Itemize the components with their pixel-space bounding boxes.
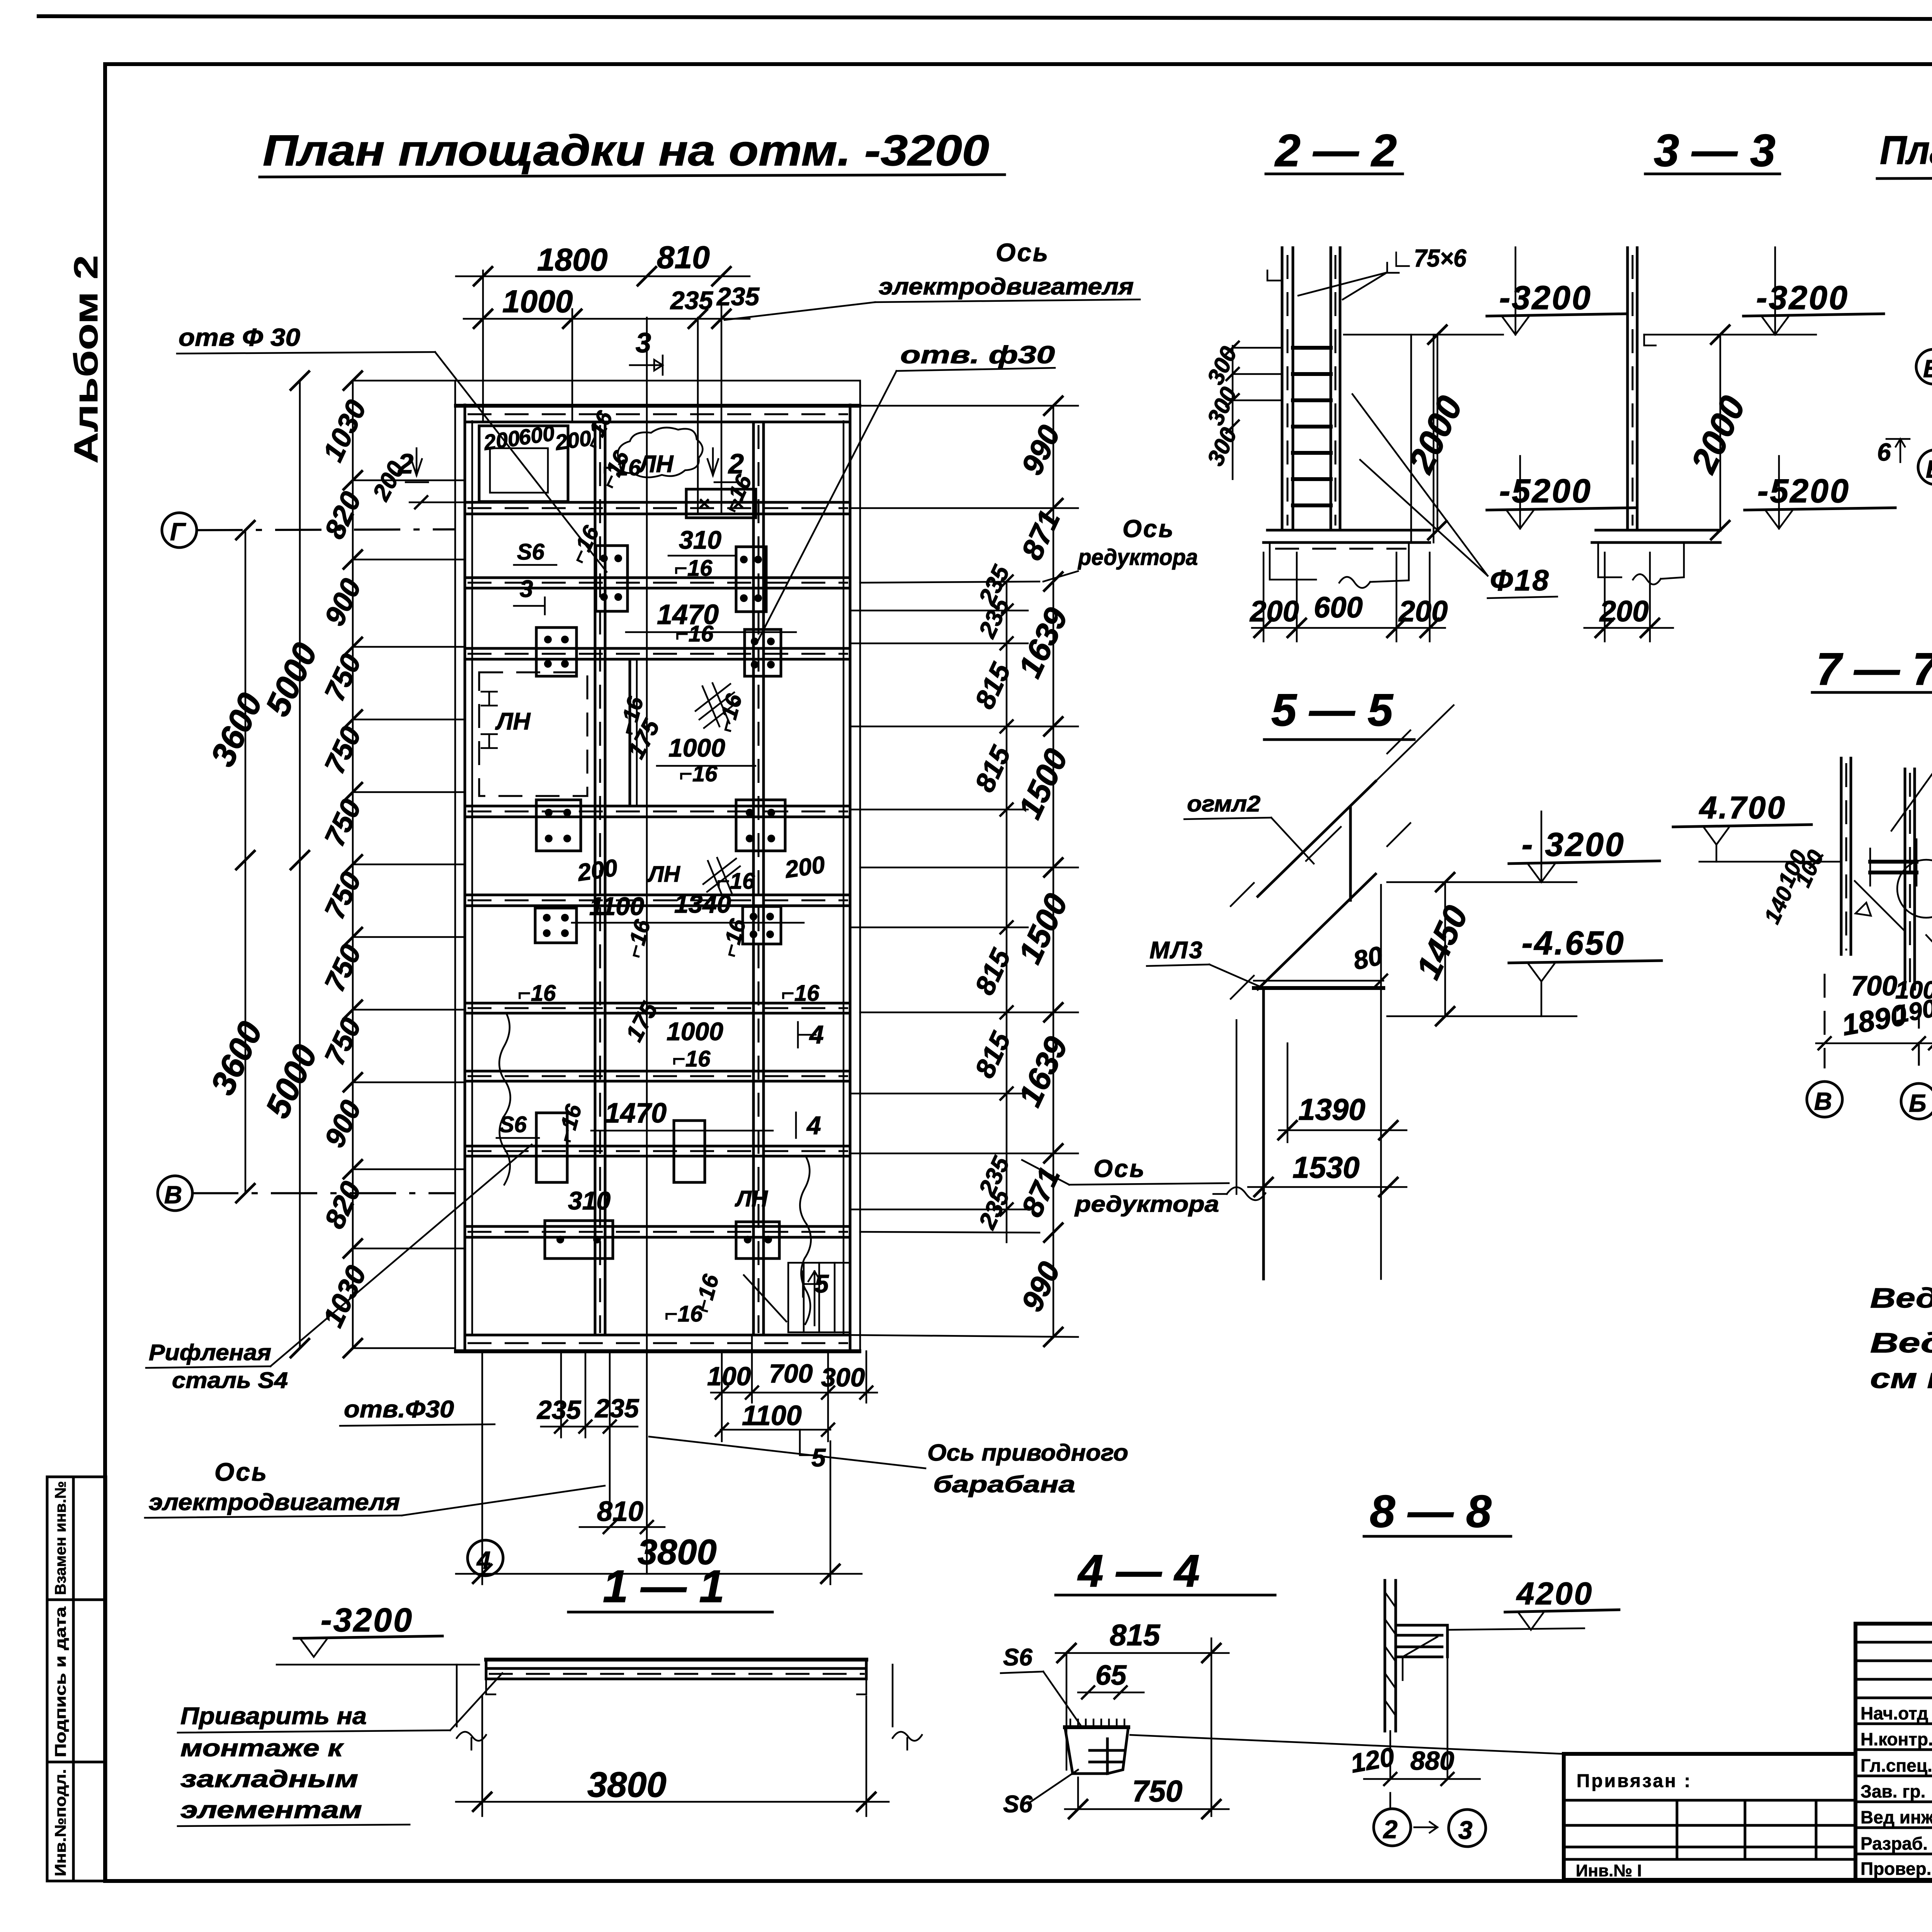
top dim line 1000-235-235 xyxy=(464,318,750,320)
svg-text:отв.Ф30: отв.Ф30 xyxy=(344,1396,454,1423)
svg-text:Провер.: Провер. xyxy=(1861,1859,1931,1879)
level line -3200 xyxy=(1344,334,1503,336)
plan left wall xyxy=(464,405,466,1351)
axis extension 235 right xyxy=(721,305,723,514)
rail post xyxy=(1349,807,1352,900)
extension verticals below plan xyxy=(482,1335,866,1584)
svg-text:300: 300 xyxy=(821,1363,865,1392)
svg-text:Ось: Ось xyxy=(1122,515,1175,543)
svg-text:S6: S6 xyxy=(517,539,545,565)
svg-text:закладным: закладным xyxy=(180,1766,358,1793)
svg-text:1000: 1000 xyxy=(668,733,725,762)
left dim chain 5000 xyxy=(299,381,301,1348)
svg-text:3: 3 xyxy=(520,576,533,602)
squiggle wall bottom-left room xyxy=(499,1013,510,1185)
column plate P9 tall xyxy=(536,1113,567,1182)
title block outer border xyxy=(1855,1624,1932,1880)
svg-text:-3200: -3200 xyxy=(1756,279,1849,316)
top edge beam xyxy=(456,404,859,408)
svg-text:⌐16: ⌐16 xyxy=(781,981,820,1006)
svg-text:1340: 1340 xyxy=(674,889,731,918)
base line xyxy=(1596,529,1720,532)
hatch mark 2 xyxy=(703,858,740,898)
svg-text:∟75×6: ∟75×6 xyxy=(1391,244,1466,272)
svg-text:План площадки на отм. -3200: План площадки на отм. -3200 xyxy=(263,126,989,175)
dim 1100 below xyxy=(721,1429,830,1431)
brace diagonal xyxy=(1855,881,1904,930)
beam row 8 xyxy=(465,1070,850,1073)
svg-text:Приварить на: Приварить на xyxy=(180,1703,367,1730)
svg-text:ЛН: ЛН xyxy=(638,451,674,478)
grid circles В Б xyxy=(1824,974,1826,1068)
svg-text:3800: 3800 xyxy=(638,1532,717,1572)
four thin top rows xyxy=(1855,1641,1932,1644)
column base plate P6 xyxy=(736,800,785,851)
svg-text:1100: 1100 xyxy=(589,892,644,920)
break squiggle xyxy=(1213,1187,1265,1201)
grid circle 4 xyxy=(468,1540,503,1576)
svg-text:МЛ3: МЛ3 xyxy=(1150,937,1204,964)
svg-text:⌐16: ⌐16 xyxy=(518,981,556,1006)
svg-text:810: 810 xyxy=(657,240,710,275)
svg-text:Инв.№ I: Инв.№ I xyxy=(1576,1861,1642,1880)
svg-text:Ведомость элементов см на: Ведомость элементов см на листе 23. xyxy=(1870,1283,1932,1314)
svg-text:огмл2: огмл2 xyxy=(1187,791,1260,816)
small room top-left xyxy=(479,426,568,502)
ladder rail right xyxy=(1330,248,1332,530)
splice plate xyxy=(1870,862,1917,872)
svg-text:200: 200 xyxy=(553,425,593,455)
svg-text:барабана: барабана xyxy=(933,1471,1075,1497)
svg-text:235: 235 xyxy=(594,1394,639,1423)
grid circle Б xyxy=(1918,450,1932,485)
svg-text:2: 2 xyxy=(1383,1815,1398,1844)
svg-text:Рифленая: Рифленая xyxy=(149,1340,271,1365)
svg-text:Альбом 2: Альбом 2 xyxy=(68,255,105,464)
svg-text:4: 4 xyxy=(476,1546,491,1574)
beam body xyxy=(486,1658,866,1662)
detail circle xyxy=(1897,860,1932,918)
svg-text:Ведомость элементов по сери: Ведомость элементов по серии 1.450.3-6 xyxy=(1870,1328,1932,1359)
svg-text:-5200: -5200 xyxy=(1757,473,1850,510)
foundation break xyxy=(1598,543,1684,585)
svg-text:235: 235 xyxy=(670,286,713,315)
dim 100 700 300 xyxy=(711,1392,877,1394)
svg-text:1390: 1390 xyxy=(1298,1092,1366,1126)
svg-text:7 — 7: 7 — 7 xyxy=(1816,644,1932,695)
svg-text:-4.650: -4.650 xyxy=(1522,925,1625,962)
svg-text:700: 700 xyxy=(769,1359,813,1388)
svg-text:-5200: -5200 xyxy=(1499,473,1592,510)
beam row 9 xyxy=(465,1145,850,1148)
svg-text:ЛН: ЛН xyxy=(495,708,531,735)
column verticals below platform xyxy=(1262,988,1265,1279)
svg-text:750: 750 xyxy=(1132,1774,1182,1808)
svg-text:1000: 1000 xyxy=(667,1017,723,1046)
axis В dash-dot xyxy=(192,1192,455,1194)
svg-text:Г: Г xyxy=(170,518,186,546)
small table grid xyxy=(1564,1754,1855,1880)
svg-text:электродвигателя: электродвигателя xyxy=(149,1489,400,1515)
svg-text:880: 880 xyxy=(1410,1746,1454,1776)
svg-text:В: В xyxy=(1814,1087,1832,1115)
svg-text:1100: 1100 xyxy=(742,1400,802,1431)
svg-text:⌐16: ⌐16 xyxy=(603,455,641,480)
column base plate P8 xyxy=(743,906,781,944)
svg-text:Ось: Ось xyxy=(996,238,1049,267)
column line right xyxy=(752,422,755,1335)
bottom dim 200 xyxy=(1584,627,1673,629)
svg-text:200: 200 xyxy=(783,851,827,883)
svg-text:65: 65 xyxy=(1095,1660,1127,1691)
grid circle В xyxy=(1916,349,1932,384)
rail xyxy=(1626,248,1629,530)
dim 3800 xyxy=(456,1573,862,1575)
svg-text:-3200: -3200 xyxy=(1499,279,1592,316)
wall edge line xyxy=(1410,335,1412,543)
room divider vertical mid xyxy=(629,659,631,806)
svg-text:Б: Б xyxy=(1909,1089,1926,1117)
beam row 7 xyxy=(465,1002,850,1005)
ladder rungs xyxy=(1293,348,1331,505)
svg-text:Инв.№подл.: Инв.№подл. xyxy=(52,1769,69,1876)
svg-text:200: 200 xyxy=(575,854,619,886)
svg-text:электродвигателя: электродвигателя xyxy=(879,274,1134,299)
dim 1390 xyxy=(1279,1129,1406,1131)
signature rows xyxy=(1855,1723,1932,1725)
svg-text:5 — 5: 5 — 5 xyxy=(1271,685,1394,736)
top dim line 1800-810 xyxy=(456,276,750,277)
column base plate P11 xyxy=(545,1221,613,1259)
svg-text:Ф18: Ф18 xyxy=(1490,564,1550,597)
svg-text:3 — 3: 3 — 3 xyxy=(1654,125,1776,176)
svg-text:Разраб.: Разраб. xyxy=(1861,1833,1928,1854)
beam row 4 xyxy=(465,647,850,650)
dashed room left ЛН xyxy=(479,672,587,796)
svg-text:Привязан :: Привязан : xyxy=(1577,1771,1692,1791)
svg-text:1000: 1000 xyxy=(502,284,573,319)
svg-text:⌐16: ⌐16 xyxy=(672,1046,711,1071)
beam row 3 xyxy=(465,577,850,579)
svg-text:см на листе 22.: см на листе 22. xyxy=(1870,1363,1932,1394)
svg-text:200: 200 xyxy=(1599,595,1649,628)
vertical dim 1450 xyxy=(1444,882,1446,1016)
svg-text:План лестницы с отм. ±0.000: План лестницы с отм. ±0.000 на отм. 4700 xyxy=(1880,128,1932,173)
axis Г dash-dot xyxy=(196,529,455,530)
svg-text:Вед инж: Вед инж xyxy=(1861,1807,1932,1827)
svg-text:S6: S6 xyxy=(1003,1644,1032,1671)
grid circle 2 xyxy=(1374,1809,1411,1846)
right extension lines xyxy=(850,406,1078,1337)
svg-text:200: 200 xyxy=(1249,595,1299,628)
column base plate P5 xyxy=(536,800,581,851)
vertical dim 2000 xyxy=(1437,335,1439,530)
left small dim chain 300x3 xyxy=(1232,346,1234,479)
beam row 5 xyxy=(465,805,850,808)
column plate top wide xyxy=(686,489,756,518)
beam row 2 xyxy=(465,501,850,504)
svg-text:1470: 1470 xyxy=(605,1098,667,1129)
bracket element xyxy=(1065,1725,1128,1729)
beam row 10 xyxy=(465,1225,850,1228)
svg-text:Ось приводного: Ось приводного xyxy=(927,1440,1128,1466)
motor axis extension vertical xyxy=(646,318,648,1574)
svg-text:6: 6 xyxy=(1877,438,1891,466)
handrail diagonals xyxy=(1258,781,1376,896)
column base plate P12 xyxy=(736,1222,779,1259)
svg-text:Подпись и дата: Подпись и дата xyxy=(52,1606,69,1757)
left margin stamp boxes xyxy=(47,255,106,1881)
svg-text:235: 235 xyxy=(536,1395,582,1425)
column base plate P7 xyxy=(535,908,577,943)
extension line 1000 xyxy=(482,270,484,422)
svg-text:монтаже к: монтаже к xyxy=(180,1735,344,1762)
level line xyxy=(1644,334,1816,336)
svg-text:310: 310 xyxy=(679,526,721,554)
svg-text:редуктора: редуктора xyxy=(1074,1192,1219,1217)
ladder rail left xyxy=(1281,248,1284,530)
svg-text:Ось: Ось xyxy=(214,1458,268,1486)
platform line xyxy=(1254,986,1383,990)
svg-text:600: 600 xyxy=(1314,591,1363,624)
svg-text:2: 2 xyxy=(728,449,744,480)
svg-text:В: В xyxy=(164,1181,182,1209)
column plate P10 tall xyxy=(674,1121,705,1182)
svg-text:2 — 2: 2 — 2 xyxy=(1274,125,1397,176)
squiggle right room xyxy=(800,1156,811,1324)
svg-text:Нач.отд: Нач.отд xyxy=(1861,1703,1928,1723)
column channels xyxy=(1840,758,1843,954)
svg-text:815: 815 xyxy=(1110,1618,1161,1652)
column lower part xyxy=(1389,1731,1391,1779)
dim 235 235 below xyxy=(541,1426,638,1428)
extension verticals with break xyxy=(457,1665,486,1750)
grid circle 3 xyxy=(1449,1810,1486,1847)
cloud ЛН top xyxy=(618,428,703,478)
column base plate P3 xyxy=(536,628,577,676)
svg-text:700: 700 xyxy=(1851,971,1897,1002)
stamp box grid xyxy=(47,1477,106,1881)
column bar xyxy=(1384,1580,1386,1731)
foundation with break xyxy=(1270,543,1409,588)
dim 1530 xyxy=(1248,1186,1406,1188)
svg-text:200: 200 xyxy=(482,425,521,455)
grid circle Г xyxy=(162,513,197,548)
svg-text:отв Ф 30: отв Ф 30 xyxy=(179,323,300,351)
svg-text:Взамен инв.№: Взамен инв.№ xyxy=(52,1481,69,1595)
right chain inner 235/815 xyxy=(1006,582,1008,927)
rail end strokes xyxy=(1231,730,1410,999)
svg-text:- 3200: - 3200 xyxy=(1522,826,1625,863)
plan outer boundary xyxy=(455,381,860,1352)
dim 3800 xyxy=(456,1801,889,1803)
svg-text:4: 4 xyxy=(806,1111,821,1139)
column base plate P4 xyxy=(745,629,781,676)
svg-text:⌐16: ⌐16 xyxy=(674,556,713,581)
svg-text:ЛН: ЛН xyxy=(647,862,680,887)
svg-text:4.700: 4.700 xyxy=(1699,790,1786,825)
vertical dim 2000 xyxy=(1719,335,1721,530)
column base plate P1 xyxy=(596,546,628,611)
dim 810 below xyxy=(580,1526,665,1528)
svg-text:600: 600 xyxy=(517,420,556,449)
bracket top right xyxy=(1396,1625,1447,1657)
svg-text:3: 3 xyxy=(636,328,651,359)
level line xyxy=(277,1664,479,1666)
svg-text:310: 310 xyxy=(568,1186,611,1215)
arrow between xyxy=(1414,1822,1437,1833)
svg-text:Зав. гр.: Зав. гр. xyxy=(1861,1781,1925,1801)
column base plate P2 xyxy=(736,547,766,612)
svg-text:редуктора: редуктора xyxy=(1077,545,1198,570)
svg-text:1530: 1530 xyxy=(1293,1150,1360,1184)
svg-text:235: 235 xyxy=(716,282,760,311)
svg-text:810: 810 xyxy=(597,1496,643,1527)
grid circle В xyxy=(158,1176,192,1211)
svg-text:4 — 4: 4 — 4 xyxy=(1077,1546,1200,1597)
beam row 6 xyxy=(465,894,850,896)
svg-text:4200: 4200 xyxy=(1516,1576,1593,1611)
sheet outer top edge line xyxy=(39,16,1932,20)
top support bracket xyxy=(1267,263,1399,281)
svg-text:200: 200 xyxy=(1398,595,1448,628)
svg-text:сталь S4: сталь S4 xyxy=(172,1368,288,1393)
level line top xyxy=(1699,861,1839,863)
svg-text:Ось: Ось xyxy=(1094,1155,1146,1182)
staircase bottom right xyxy=(744,1263,850,1332)
svg-text:1470: 1470 xyxy=(657,599,719,630)
svg-text:Гл.спец.: Гл.спец. xyxy=(1861,1755,1932,1776)
svg-text:1800: 1800 xyxy=(537,242,607,277)
I-beam section symbols in LN room xyxy=(481,692,497,748)
svg-text:S6: S6 xyxy=(499,1112,527,1137)
svg-text:8 — 8: 8 — 8 xyxy=(1370,1486,1492,1537)
column line left xyxy=(594,422,597,1335)
svg-text:80: 80 xyxy=(1350,941,1385,976)
axis extension 235 left xyxy=(697,318,699,514)
svg-text:3: 3 xyxy=(1458,1816,1473,1844)
svg-text:отв. ф30: отв. ф30 xyxy=(900,341,1055,369)
bottom edge beam xyxy=(465,1334,850,1337)
svg-text:ЛН: ЛН xyxy=(735,1186,768,1211)
ladder base line xyxy=(1267,529,1430,532)
left dim chain 3600 xyxy=(245,530,247,1193)
svg-text:Б: Б xyxy=(1926,455,1932,483)
svg-text:100: 100 xyxy=(707,1362,751,1391)
left extension lines to plan xyxy=(353,381,465,1348)
note line left of table xyxy=(1130,1735,1564,1754)
bottom dim 200 600 200 xyxy=(1252,627,1445,629)
svg-text:В: В xyxy=(1923,355,1932,383)
hatch mark 1 xyxy=(696,683,739,728)
plan right wall xyxy=(849,405,852,1351)
left dim chain inner (segment numbers) xyxy=(352,381,354,1348)
svg-text:3800: 3800 xyxy=(587,1765,667,1804)
right chain outer xyxy=(1053,406,1054,1337)
svg-text:Н.контр.: Н.контр. xyxy=(1861,1729,1932,1749)
svg-text:элементам: элементам xyxy=(180,1797,362,1823)
svg-text:-3200: -3200 xyxy=(321,1602,413,1639)
extension line 1481 xyxy=(571,309,573,422)
